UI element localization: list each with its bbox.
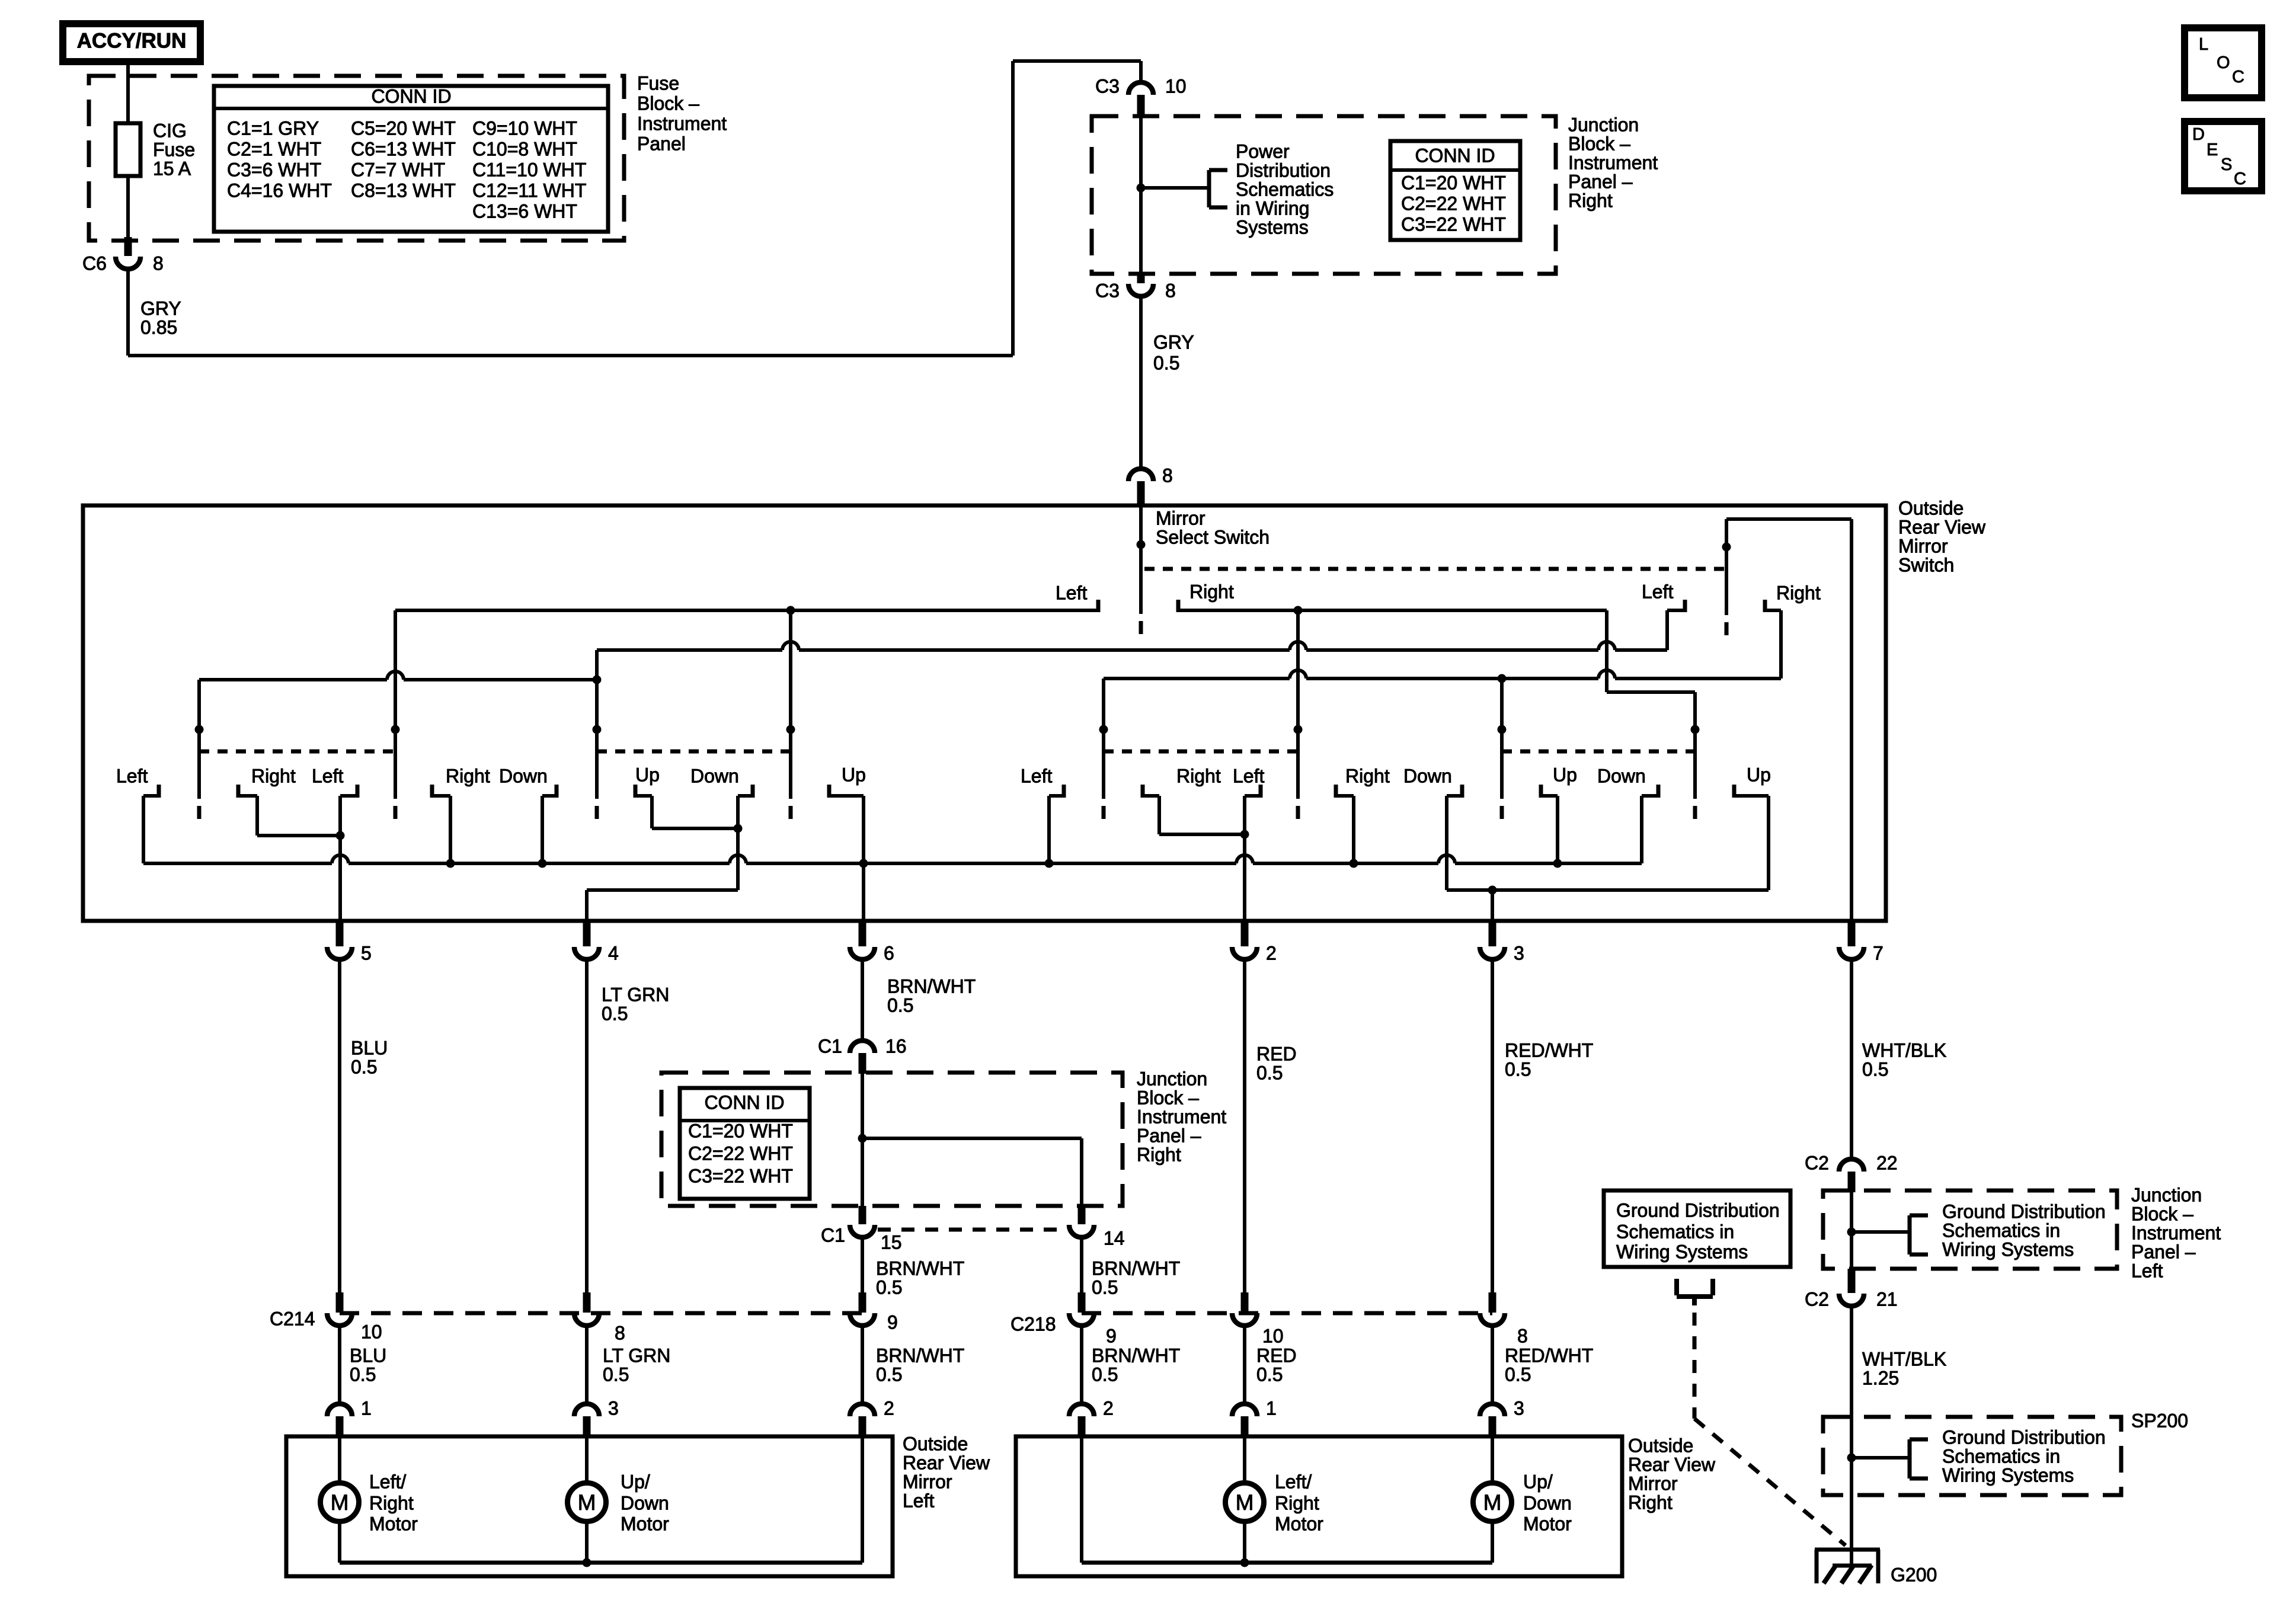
- wire inside SP200: [1850, 1417, 1853, 1495]
- wire BLU 0.5 to motor: [338, 1326, 341, 1403]
- svg-text:0.5: 0.5: [1505, 1058, 1531, 1080]
- svg-text:C2=1 WHT: C2=1 WHT: [227, 138, 321, 159]
- svg-text:C1=20 WHT: C1=20 WHT: [688, 1120, 793, 1141]
- wire BRN/WHT 0.5 below C1-15: [861, 1237, 864, 1292]
- svg-text:C2: C2: [1805, 1288, 1829, 1310]
- svg-text:9: 9: [1106, 1325, 1117, 1346]
- wire fuse to connector C6: [126, 176, 130, 237]
- svg-text:Panel –: Panel –: [2131, 1241, 2196, 1262]
- svg-text:BRN/WHT: BRN/WHT: [876, 1345, 964, 1366]
- svg-text:RED: RED: [1256, 1345, 1297, 1366]
- outside rear view mirror right box: [1016, 1436, 1622, 1576]
- wire feed to blade D: [1605, 610, 1609, 692]
- svg-text:Left: Left: [1056, 582, 1087, 603]
- svg-text:C1: C1: [818, 1035, 842, 1057]
- wire ACCY/RUN to fuse: [126, 62, 130, 123]
- svg-text:C218: C218: [1011, 1313, 1056, 1334]
- dashed link C1-15 to 14: [878, 1228, 1067, 1232]
- svg-text:Ground Distribution: Ground Distribution: [1616, 1199, 1780, 1221]
- svg-text:C11=10 WHT: C11=10 WHT: [472, 159, 586, 180]
- reference bracket power distribution: [1207, 170, 1211, 207]
- svg-text:0.5: 0.5: [1153, 352, 1179, 373]
- wire ground feed y1097: [597, 648, 782, 652]
- svg-text:GRY: GRY: [140, 297, 181, 319]
- svg-text:0.5: 0.5: [876, 1276, 902, 1298]
- svg-text:Right: Right: [1176, 765, 1221, 786]
- svg-text:Left/: Left/: [1275, 1471, 1312, 1492]
- junction block IP right dashed box: [1092, 116, 1556, 274]
- svg-text:Rear View: Rear View: [1628, 1454, 1716, 1475]
- svg-text:Panel: Panel: [637, 133, 686, 154]
- svg-text:0.5: 0.5: [603, 1364, 629, 1385]
- wire RED 0.5 pin2: [1243, 959, 1246, 1292]
- svg-text:Left: Left: [312, 765, 343, 786]
- wire RED/WHT 0.5 to motor: [1491, 1326, 1494, 1403]
- wire RED 0.5 to motor: [1243, 1326, 1246, 1403]
- svg-text:C1: C1: [821, 1224, 845, 1246]
- svg-text:C2=22 WHT: C2=22 WHT: [1401, 193, 1506, 214]
- wire to ground G200: [1850, 1495, 1853, 1566]
- svg-text:WHT/BLK: WHT/BLK: [1862, 1348, 1946, 1369]
- svg-text:Instrument: Instrument: [1137, 1106, 1226, 1127]
- splice SP200 dashed box: [1823, 1417, 2121, 1495]
- contact Right pole1: [236, 785, 241, 798]
- wire right ground feed y1145: [1104, 677, 1290, 680]
- connector C1 pin 16: [850, 1041, 875, 1053]
- svg-text:Right: Right: [446, 765, 490, 786]
- reference bracket ground distribution 1: [1908, 1215, 1912, 1254]
- node blade 4 feed: [786, 606, 795, 615]
- svg-text:Right: Right: [1275, 1492, 1319, 1513]
- node blade C feed: [1498, 674, 1507, 683]
- connector C2 pin 21: [1848, 1269, 1856, 1293]
- svg-text:C3=22 WHT: C3=22 WHT: [1401, 213, 1506, 235]
- svg-text:S: S: [2221, 155, 2232, 174]
- contact Left pole1: [157, 785, 161, 798]
- svg-text:L: L: [2199, 35, 2208, 54]
- node pole4 down junction: [734, 824, 743, 833]
- svg-text:0.5: 0.5: [1256, 1062, 1283, 1083]
- wire ground feed to blade 1: [199, 678, 387, 681]
- fuse CIG 15A: [116, 123, 140, 176]
- svg-text:RED/WHT: RED/WHT: [1505, 1039, 1593, 1061]
- svg-text:C: C: [2232, 68, 2244, 87]
- svg-text:Mirror: Mirror: [903, 1471, 952, 1492]
- wire BRN/WHT 0.5 below 14: [1080, 1237, 1083, 1292]
- select switch linkage dashed: [1144, 567, 1726, 571]
- svg-text:C12=11 WHT: C12=11 WHT: [472, 180, 586, 201]
- svg-text:Systems: Systems: [1236, 216, 1309, 238]
- svg-text:GRY: GRY: [1153, 331, 1194, 353]
- wire LT GRN 0.5 to motor: [585, 1326, 589, 1403]
- svg-text:Junction: Junction: [1568, 114, 1639, 135]
- svg-text:10: 10: [1262, 1325, 1284, 1346]
- svg-text:BRN/WHT: BRN/WHT: [887, 975, 976, 997]
- svg-text:in Wiring: in Wiring: [1236, 197, 1309, 219]
- svg-text:8: 8: [615, 1322, 625, 1343]
- contact Up pole4: [827, 785, 832, 798]
- mirror motor connectors right box: [1069, 1404, 1094, 1416]
- svg-text:0.5: 0.5: [1862, 1058, 1888, 1080]
- svg-text:Instrument: Instrument: [637, 113, 727, 134]
- svg-text:3: 3: [608, 1397, 619, 1419]
- svg-text:Outside: Outside: [1628, 1435, 1693, 1456]
- svg-text:Left: Left: [903, 1490, 934, 1511]
- mirror select switch pole 1 blade: [1139, 505, 1143, 614]
- svg-text:0.5: 0.5: [350, 1364, 376, 1385]
- junction block IP left dashed box: [1823, 1190, 2117, 1269]
- svg-text:15 A: 15 A: [153, 158, 191, 179]
- power source ACCY/RUN: [63, 24, 200, 62]
- wire BLU 0.5 pin5: [338, 959, 341, 1292]
- node ground distribution branch: [1847, 1228, 1856, 1237]
- svg-text:CONN ID: CONN ID: [1415, 145, 1495, 166]
- node SP200 branch: [1847, 1454, 1856, 1462]
- connector C6 pin 8: [124, 237, 132, 256]
- connector pins 5 4 6 2 3 7: [336, 923, 344, 946]
- svg-text:1.25: 1.25: [1862, 1367, 1899, 1388]
- svg-text:Left: Left: [1021, 765, 1052, 786]
- switch blade tip dashes: [197, 806, 202, 819]
- svg-text:C7=7 WHT: C7=7 WHT: [351, 159, 445, 180]
- wire BRN/WHT 0.5 to mirror right: [1080, 1326, 1083, 1403]
- svg-text:Junction: Junction: [2131, 1184, 2202, 1205]
- svg-text:Right: Right: [1345, 765, 1390, 786]
- svg-text:Up: Up: [635, 764, 660, 785]
- switch pole linkage dashes: [199, 750, 395, 754]
- svg-text:0.5: 0.5: [1256, 1364, 1283, 1385]
- wire motor return bus left box: [338, 1521, 341, 1563]
- svg-text:0.5: 0.5: [602, 1003, 628, 1024]
- svg-text:C: C: [2234, 169, 2246, 188]
- wire RED/WHT 0.5 pin3: [1491, 959, 1494, 1292]
- svg-text:C5=20 WHT: C5=20 WHT: [351, 117, 456, 139]
- svg-text:Rear View: Rear View: [903, 1452, 990, 1473]
- wire inside junction block left: [1850, 1192, 1853, 1269]
- svg-text:C13=6 WHT: C13=6 WHT: [472, 200, 577, 222]
- wire motor return bus right box: [1080, 1436, 1083, 1563]
- svg-text:Left: Left: [116, 765, 148, 786]
- svg-text:0.5: 0.5: [351, 1056, 377, 1077]
- contact Up pole3: [634, 785, 638, 798]
- motor M left/right mirror right: [1243, 1436, 1246, 1483]
- svg-text:C2: C2: [1805, 1152, 1829, 1173]
- svg-text:C1=20 WHT: C1=20 WHT: [1401, 172, 1506, 193]
- svg-text:C214: C214: [270, 1308, 315, 1329]
- connector C1 pin 15: [859, 1206, 866, 1224]
- svg-text:BRN/WHT: BRN/WHT: [1092, 1345, 1180, 1366]
- svg-text:6: 6: [884, 942, 894, 964]
- right mirror pin3 bus y1502: [1447, 888, 1769, 892]
- contact Left poleB: [1259, 785, 1263, 798]
- CONN ID table junction block center: [680, 1088, 810, 1199]
- motor M up/down mirror left: [585, 1436, 589, 1483]
- svg-text:Up: Up: [1747, 764, 1771, 785]
- svg-text:Mirror: Mirror: [1156, 507, 1205, 529]
- svg-text:Rear View: Rear View: [1898, 516, 1986, 537]
- svg-text:Right: Right: [1189, 581, 1234, 602]
- outside rear view mirror switch box: [83, 505, 1886, 921]
- svg-text:0.5: 0.5: [1092, 1276, 1118, 1298]
- svg-text:LT GRN: LT GRN: [602, 984, 669, 1005]
- contact Up poleC: [1539, 785, 1543, 798]
- motor M left/right mirror left: [338, 1436, 341, 1483]
- svg-text:Junction: Junction: [1137, 1068, 1207, 1089]
- svg-text:C6=13 WHT: C6=13 WHT: [351, 138, 456, 159]
- svg-text:10: 10: [361, 1321, 382, 1342]
- svg-text:22: 22: [1876, 1152, 1898, 1173]
- svg-text:9: 9: [887, 1311, 898, 1333]
- connector row C218: [1082, 1311, 1492, 1316]
- svg-text:Fuse: Fuse: [637, 72, 679, 94]
- svg-text:0.5: 0.5: [876, 1364, 902, 1385]
- svg-text:C6: C6: [82, 252, 107, 274]
- svg-text:1: 1: [1266, 1397, 1277, 1419]
- svg-text:C4=16 WHT: C4=16 WHT: [227, 180, 332, 201]
- connector switch pin 8: [1128, 469, 1153, 481]
- wire WHT/BLK 1.25: [1850, 1306, 1853, 1417]
- svg-text:Right: Right: [1568, 190, 1613, 211]
- svg-text:Down: Down: [1597, 765, 1646, 786]
- svg-text:3: 3: [1514, 1397, 1524, 1419]
- svg-text:M: M: [331, 1490, 349, 1515]
- wire GRY 0.5: [1139, 296, 1143, 470]
- svg-text:M: M: [1483, 1490, 1502, 1515]
- node junction to power distribution: [1137, 184, 1146, 193]
- svg-text:Schematics in: Schematics in: [1942, 1220, 2060, 1241]
- svg-text:Down: Down: [621, 1492, 669, 1513]
- node pin3 junction: [1488, 886, 1497, 895]
- svg-text:2: 2: [1266, 942, 1277, 964]
- svg-text:14: 14: [1104, 1227, 1125, 1249]
- wire BRN/WHT 0.5 to mirror left: [861, 1326, 864, 1403]
- svg-text:7: 7: [1873, 942, 1884, 964]
- svg-text:Right: Right: [1137, 1144, 1181, 1165]
- wire BRN/WHT 0.5 pin6: [861, 959, 864, 1041]
- svg-text:BRN/WHT: BRN/WHT: [876, 1257, 964, 1279]
- contact Right poleA: [1141, 785, 1145, 798]
- node to pin 14: [858, 1134, 867, 1143]
- ground return bus y1457: [143, 862, 332, 865]
- svg-text:Wiring Systems: Wiring Systems: [1616, 1241, 1748, 1262]
- svg-text:C3=22 WHT: C3=22 WHT: [688, 1165, 793, 1186]
- svg-text:Up: Up: [842, 764, 866, 785]
- svg-text:Switch: Switch: [1898, 554, 1954, 575]
- svg-text:Down: Down: [690, 765, 739, 786]
- svg-text:Panel –: Panel –: [1137, 1125, 1201, 1146]
- svg-text:SP200: SP200: [2131, 1410, 2188, 1431]
- svg-text:C1=1 GRY: C1=1 GRY: [227, 117, 319, 139]
- svg-text:21: 21: [1876, 1288, 1898, 1310]
- svg-text:Right: Right: [1776, 582, 1821, 603]
- svg-text:Wiring Systems: Wiring Systems: [1942, 1464, 2074, 1486]
- svg-text:E: E: [2207, 140, 2218, 159]
- svg-text:0.5: 0.5: [887, 994, 913, 1016]
- svg-text:C10=8 WHT: C10=8 WHT: [472, 138, 577, 159]
- DESC box: [2185, 121, 2262, 191]
- wire inside junction block: [1139, 117, 1143, 274]
- contact Left pole2: [356, 785, 360, 798]
- svg-text:Right: Right: [1628, 1492, 1673, 1513]
- svg-text:Instrument: Instrument: [2131, 1222, 2221, 1243]
- contact Down poleC: [1460, 785, 1464, 798]
- svg-text:Block –: Block –: [637, 92, 699, 114]
- svg-text:5: 5: [361, 942, 372, 964]
- svg-text:Instrument: Instrument: [1568, 152, 1658, 173]
- svg-text:CONN ID: CONN ID: [704, 1092, 784, 1113]
- contact Left poleA: [1062, 785, 1066, 798]
- svg-text:4: 4: [608, 942, 619, 964]
- reference bracket ground distribution 2: [1908, 1439, 1912, 1478]
- CONN ID table fuse block: [214, 86, 608, 232]
- svg-text:Motor: Motor: [1275, 1513, 1323, 1534]
- svg-text:3: 3: [1514, 942, 1524, 964]
- svg-text:O: O: [2217, 53, 2230, 72]
- svg-text:Schematics in: Schematics in: [1616, 1221, 1734, 1242]
- svg-text:Right: Right: [251, 765, 296, 786]
- svg-text:Down: Down: [1523, 1492, 1572, 1513]
- svg-text:Motor: Motor: [1523, 1513, 1572, 1534]
- select switch pole 2 blade: [1725, 519, 1728, 615]
- svg-text:C8=13 WHT: C8=13 WHT: [351, 180, 456, 201]
- svg-text:Right: Right: [369, 1492, 414, 1513]
- svg-text:Left: Left: [1642, 581, 1673, 602]
- svg-text:Ground Distribution: Ground Distribution: [1942, 1201, 2106, 1222]
- svg-text:1: 1: [361, 1397, 372, 1419]
- svg-text:Outside: Outside: [903, 1433, 968, 1454]
- svg-text:Mirror: Mirror: [1898, 535, 1948, 556]
- svg-text:Up: Up: [1553, 764, 1577, 785]
- svg-text:Left/: Left/: [369, 1471, 406, 1492]
- node blade B feed: [1294, 606, 1303, 615]
- svg-text:RED/WHT: RED/WHT: [1505, 1345, 1593, 1366]
- contact Right poleB: [1334, 785, 1338, 798]
- svg-text:M: M: [1236, 1490, 1254, 1515]
- svg-text:8: 8: [1517, 1325, 1528, 1346]
- ground symbol G200: [1815, 1548, 1880, 1552]
- svg-text:D: D: [2192, 125, 2205, 144]
- connector C3 pin 8: [1137, 274, 1145, 283]
- ground distribution reference box: [1604, 1190, 1790, 1267]
- svg-text:LT GRN: LT GRN: [603, 1345, 670, 1366]
- CONN ID table junction block right: [1390, 141, 1520, 240]
- svg-text:Power: Power: [1236, 140, 1290, 162]
- svg-text:ACCY/RUN: ACCY/RUN: [77, 30, 187, 53]
- svg-text:C2=22 WHT: C2=22 WHT: [688, 1142, 793, 1164]
- wire right-mirror feed bus y1030: [1178, 609, 1607, 612]
- switch pole pivot dots: [195, 725, 204, 734]
- wire GRY 0.85: [126, 269, 130, 356]
- contact Up poleD: [1732, 785, 1737, 798]
- svg-text:0.5: 0.5: [1505, 1364, 1531, 1385]
- svg-text:Left: Left: [2131, 1260, 2163, 1281]
- connector C2 pin 22: [1839, 1159, 1864, 1172]
- svg-text:C3: C3: [1095, 75, 1120, 97]
- fuse block dashed box: [89, 76, 624, 241]
- svg-text:M: M: [578, 1490, 596, 1515]
- svg-text:16: 16: [885, 1035, 907, 1057]
- brace under reference box: [1674, 1279, 1679, 1295]
- svg-text:Block –: Block –: [1568, 133, 1630, 154]
- contact Right pole2: [430, 785, 434, 798]
- svg-text:C3=6 WHT: C3=6 WHT: [227, 159, 321, 180]
- svg-text:2: 2: [884, 1397, 894, 1419]
- svg-text:10: 10: [1165, 75, 1187, 97]
- mirror motor connectors left box: [327, 1404, 352, 1416]
- svg-text:Motor: Motor: [621, 1513, 669, 1534]
- wire left-mirror feed bus y1030: [395, 609, 1098, 612]
- connector pin 14: [1078, 1206, 1086, 1224]
- svg-text:Mirror: Mirror: [1628, 1473, 1678, 1494]
- svg-text:WHT/BLK: WHT/BLK: [1862, 1039, 1946, 1061]
- motor M up/down mirror right: [1491, 1436, 1494, 1483]
- node poleB left to pin2: [1240, 830, 1249, 839]
- svg-text:G200: G200: [1891, 1564, 1937, 1585]
- svg-text:Schematics in: Schematics in: [1942, 1445, 2060, 1467]
- svg-text:8: 8: [1165, 280, 1176, 301]
- svg-text:Panel –: Panel –: [1568, 171, 1633, 192]
- svg-text:8: 8: [1162, 465, 1173, 486]
- wire LT GRN 0.5 pin4: [585, 959, 589, 1292]
- svg-text:CONN ID: CONN ID: [371, 85, 451, 107]
- svg-text:Up/: Up/: [1523, 1471, 1553, 1492]
- svg-text:C9=10 WHT: C9=10 WHT: [472, 117, 577, 139]
- svg-text:0.5: 0.5: [1092, 1364, 1118, 1385]
- svg-text:Fuse: Fuse: [153, 139, 195, 160]
- junction block IP right center dashed box: [661, 1073, 1123, 1206]
- svg-text:Up/: Up/: [621, 1471, 650, 1492]
- node pin6 junction: [859, 859, 868, 868]
- svg-text:Block –: Block –: [2131, 1203, 2193, 1224]
- svg-text:CIG: CIG: [153, 120, 187, 141]
- svg-text:Select Switch: Select Switch: [1156, 526, 1269, 548]
- connector row C214: [340, 1311, 862, 1316]
- contact Down poleD: [1657, 785, 1661, 798]
- dashed wire to G200: [1693, 1313, 1697, 1419]
- svg-text:Left: Left: [1233, 765, 1264, 786]
- svg-text:Block –: Block –: [1137, 1087, 1199, 1108]
- svg-text:RED: RED: [1256, 1043, 1297, 1064]
- svg-text:BLU: BLU: [351, 1037, 388, 1058]
- svg-text:Wiring Systems: Wiring Systems: [1942, 1238, 2074, 1260]
- svg-text:8: 8: [153, 252, 164, 274]
- wire to pin 4: [587, 888, 738, 892]
- wire select pole2 to pin 7: [1726, 517, 1851, 521]
- node pole2 left to pin5: [336, 831, 345, 840]
- svg-text:Down: Down: [1403, 765, 1452, 786]
- svg-text:BLU: BLU: [350, 1345, 386, 1366]
- svg-text:BRN/WHT: BRN/WHT: [1092, 1257, 1180, 1279]
- svg-text:Outside: Outside: [1898, 497, 1964, 519]
- wire WHT/BLK 0.5 pin7: [1850, 959, 1853, 1158]
- outside rear view mirror left box: [286, 1436, 893, 1576]
- svg-text:0.85: 0.85: [140, 316, 177, 338]
- LOC box: [2185, 28, 2262, 98]
- svg-text:C3: C3: [1095, 280, 1120, 301]
- svg-text:Schematics: Schematics: [1236, 178, 1334, 200]
- svg-text:15: 15: [881, 1231, 902, 1253]
- svg-text:Motor: Motor: [369, 1513, 418, 1534]
- svg-text:2: 2: [1103, 1397, 1114, 1419]
- connector C3 pin 10: [1128, 82, 1153, 95]
- contact Down pole3: [555, 785, 559, 798]
- svg-text:Ground Distribution: Ground Distribution: [1942, 1426, 2106, 1448]
- node blade 3 feed: [593, 676, 602, 684]
- contact Down pole4: [751, 785, 755, 798]
- svg-text:Down: Down: [499, 765, 548, 786]
- wire inside junction block center: [861, 1074, 864, 1206]
- svg-text:Distribution: Distribution: [1236, 159, 1331, 181]
